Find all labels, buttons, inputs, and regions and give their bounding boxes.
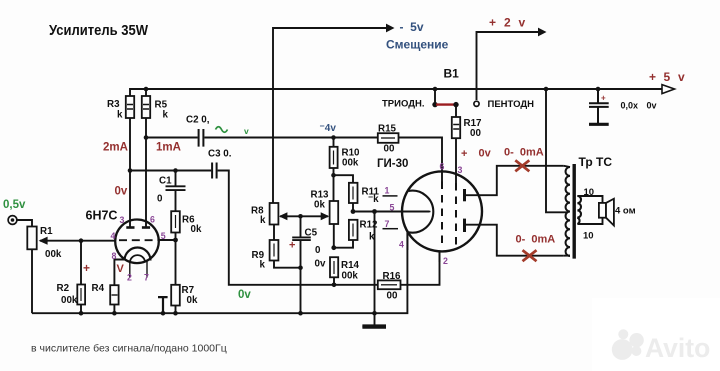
svg-text:k: k <box>260 260 266 271</box>
svg-text:0v: 0v <box>479 148 492 160</box>
svg-text:C5: C5 <box>305 228 318 239</box>
arrow R1 wiper head <box>39 237 48 245</box>
svg-text:C1: C1 <box>159 176 172 187</box>
wire bias vertical <box>273 28 387 203</box>
wire C5 node to ground rail <box>300 268 302 314</box>
capacitor C3 <box>212 163 217 179</box>
wire secondary to speaker <box>577 196 602 203</box>
svg-text:0v: 0v <box>315 259 326 270</box>
svg-text:+: + <box>649 70 656 84</box>
node R9 C5 <box>298 265 303 270</box>
svg-text:0k: 0k <box>187 295 198 306</box>
wire R16 to GI-30 cathode pin2 <box>401 251 440 285</box>
svg-text:00: 00 <box>387 291 398 302</box>
svg-text:10: 10 <box>584 187 595 198</box>
node B1 wiper contact <box>453 102 458 107</box>
svg-text:B1: B1 <box>444 67 460 81</box>
svg-text:2: 2 <box>127 273 132 283</box>
resistor R14 <box>330 257 338 277</box>
arrow +5v rail head <box>662 85 675 94</box>
svg-text:ТРИОДН.: ТРИОДН. <box>382 99 425 110</box>
svg-text:⁻4v: ⁻4v <box>320 123 337 134</box>
svg-text:+: + <box>601 94 606 103</box>
resistor R2 <box>80 241 82 285</box>
svg-text:C2 0,: C2 0, <box>186 115 210 126</box>
node C2 takeoff <box>144 135 149 140</box>
node tcap gnd <box>161 311 166 316</box>
node R13 R12 R14 <box>331 245 336 250</box>
svg-text:v: v <box>519 16 526 30</box>
label sine <box>216 127 228 133</box>
wire primary top lead <box>564 166 570 167</box>
anode bar bottom GI-30 <box>463 219 466 232</box>
svg-text:v: v <box>244 126 249 136</box>
svg-text:5: 5 <box>664 70 671 84</box>
capacitor filter bottom bar <box>589 123 609 126</box>
resistor R5 <box>142 96 150 118</box>
wire R12 to node <box>334 240 353 248</box>
svg-text:0k: 0k <box>314 200 325 211</box>
wire R3 anode lead <box>129 118 131 228</box>
capacitor C5 <box>292 216 311 267</box>
svg-text:Avito: Avito <box>645 333 710 363</box>
node grid2 R6 R7 <box>173 238 178 243</box>
svg-text:k: k <box>163 110 169 121</box>
grid dashed 6N7S <box>119 239 158 241</box>
resistor R7 <box>171 285 180 306</box>
svg-text:R15: R15 <box>378 124 397 135</box>
wire B1 red link <box>436 103 455 105</box>
node C1 takeoff <box>173 168 178 173</box>
resistor R12 <box>349 220 358 240</box>
node C5 top <box>298 214 303 219</box>
potentiometer R8 <box>270 203 279 225</box>
svg-text:v: v <box>678 70 685 84</box>
svg-text:4: 4 <box>399 240 404 250</box>
svg-text:8: 8 <box>112 251 117 261</box>
svg-text:1: 1 <box>385 186 390 196</box>
resistor R11 <box>349 183 358 203</box>
svg-text:00: 00 <box>470 128 481 139</box>
node gnd symbol <box>372 311 377 316</box>
svg-text:2: 2 <box>504 16 511 30</box>
anode bar top GI-30 <box>463 189 466 201</box>
node R10 top <box>331 135 336 140</box>
node R7 gnd <box>173 311 178 316</box>
node R14 bottom on 0v bus <box>332 283 337 288</box>
wire to C2 <box>146 137 198 139</box>
resistor R9 <box>270 240 279 261</box>
svg-text:⁻k: ⁻k <box>368 194 379 205</box>
svg-text:0k: 0k <box>191 224 202 235</box>
node R2 tap <box>79 238 84 243</box>
svg-text:+: + <box>461 148 467 160</box>
node cathode down <box>372 209 377 214</box>
node C5 gnd <box>298 311 303 316</box>
wire cathode to R4 <box>114 260 124 286</box>
svg-text:+: + <box>83 261 90 275</box>
wire cathode to ground <box>374 212 376 314</box>
svg-text:0,5v: 0,5v <box>3 199 26 211</box>
pin7 stub <box>146 261 148 278</box>
wire R8 to R9 <box>273 225 275 241</box>
node anode1 junction <box>128 168 133 173</box>
wire node to R11 <box>334 175 354 183</box>
svg-text:0- 0mA: 0- 0mA <box>504 147 544 159</box>
node B1 triode feed on rail <box>433 87 438 92</box>
anode plate pin3 <box>126 226 134 229</box>
svg-text:00k: 00k <box>45 249 62 260</box>
node R2 gnd <box>79 311 84 316</box>
tube GI-30 envelope <box>402 171 482 251</box>
svg-text:00: 00 <box>384 144 395 155</box>
speaker <box>599 203 606 218</box>
svg-text:00k: 00k <box>61 295 78 306</box>
svg-text:4: 4 <box>111 231 116 241</box>
svg-text:0v: 0v <box>647 101 657 111</box>
svg-text:6: 6 <box>440 162 445 172</box>
svg-text:6Н7С: 6Н7С <box>86 209 118 223</box>
svg-text:- 5v: - 5v <box>400 20 424 34</box>
svg-text:k: k <box>260 215 266 226</box>
wire grid2 to node <box>158 239 176 241</box>
resistor R17 <box>452 117 460 138</box>
resistor R10 <box>333 138 335 147</box>
svg-text:10: 10 <box>583 231 594 242</box>
svg-text:4 ом: 4 ом <box>615 206 636 217</box>
svg-text:0: 0 <box>157 194 163 205</box>
resistor R3 <box>126 96 134 118</box>
wire primary bottom lead <box>564 255 570 257</box>
input jack <box>8 216 17 225</box>
node B1 triode contact <box>432 102 437 107</box>
wire anode top to transformer <box>466 166 564 195</box>
svg-text:7: 7 <box>144 273 149 283</box>
capacitor tap at R7 <box>158 297 168 313</box>
watermark background strip <box>592 298 720 371</box>
svg-text:Усилитель 35W: Усилитель 35W <box>49 22 149 39</box>
svg-text:0v: 0v <box>238 289 251 301</box>
svg-text:C3 0.: C3 0. <box>208 149 232 160</box>
wire anode1 to C3 <box>130 170 211 172</box>
svg-text:+: + <box>489 16 496 30</box>
wire C3 to 0v bus <box>218 171 378 285</box>
grid2 dashed GI-30 <box>455 183 457 247</box>
pin2 stub <box>129 261 131 278</box>
node R11 R12 <box>351 209 356 214</box>
cathode arc GI-30 <box>409 191 434 233</box>
svg-text:2: 2 <box>443 256 448 266</box>
svg-text:5: 5 <box>161 231 166 241</box>
svg-text:+: + <box>289 240 295 252</box>
wire grid node to R7 <box>175 240 177 285</box>
svg-text:00k: 00k <box>342 271 359 282</box>
svg-text:6: 6 <box>150 215 155 225</box>
wire B1 triode contact feed <box>434 89 436 102</box>
node filter cap on rail <box>596 87 601 92</box>
svg-text:R2: R2 <box>57 283 70 294</box>
ground symbol <box>362 313 386 326</box>
wire contact to R17 <box>455 105 457 117</box>
capacitor filter 0,0x <box>589 89 609 123</box>
pin1 stub <box>383 195 398 197</box>
ground rail <box>32 232 407 314</box>
svg-text:7: 7 <box>385 219 390 229</box>
wire anode bottom to transformer <box>466 225 564 256</box>
wire pin4 to ground rail <box>406 232 408 250</box>
transformer secondary winding <box>577 196 581 224</box>
wire pentode contact feed +2v <box>477 32 539 100</box>
svg-text:V: V <box>117 263 125 275</box>
wire R1 to ground rail <box>31 249 33 313</box>
transformer core <box>573 164 576 259</box>
svg-text:в числителе без сигнала/подано: в числителе без сигнала/подано 1000Гц <box>31 343 227 355</box>
svg-text:5: 5 <box>390 203 395 213</box>
contact B1 pentode open circle <box>474 101 479 106</box>
wire R7 to ground rail <box>175 306 177 314</box>
node R4 gnd <box>112 311 117 316</box>
svg-text:R4: R4 <box>92 283 105 294</box>
wire +5v top rail <box>130 89 662 96</box>
svg-text:0: 0 <box>315 245 321 256</box>
svg-text:k: k <box>117 110 123 121</box>
svg-text:3: 3 <box>458 165 463 175</box>
wire pin2 to R16 <box>439 251 441 262</box>
svg-text:R16: R16 <box>383 271 402 282</box>
resistor R16 <box>378 280 401 289</box>
svg-text:k: k <box>369 232 375 243</box>
wire R11 to cathode node <box>352 203 354 212</box>
arrow +2v head <box>538 28 547 37</box>
resistor R15 <box>378 133 399 143</box>
wire R9 to C5 node <box>274 261 301 268</box>
svg-text:R14: R14 <box>341 260 360 271</box>
svg-text:0v: 0v <box>115 186 128 198</box>
X meter bottom <box>523 250 537 261</box>
arrow bias -5v head <box>386 24 395 33</box>
potentiometer R1 <box>27 227 36 250</box>
node R10 bottom <box>331 173 336 178</box>
cathode dome 6N7S <box>125 248 151 261</box>
wire R17 to grid2 GI-30 <box>455 138 457 183</box>
wire R1 wiper to grid1 <box>40 240 116 242</box>
capacitor C1 <box>166 171 186 212</box>
svg-text:0- 0mA: 0- 0mA <box>516 234 556 246</box>
svg-text:Тр ТС: Тр ТС <box>579 155 613 169</box>
svg-text:ПЕНТОДН: ПЕНТОДН <box>488 99 535 110</box>
wire cathode pin5 <box>353 211 430 213</box>
arrow wiper left head <box>279 212 288 220</box>
svg-text:2mA: 2mA <box>103 142 128 154</box>
transformer primary winding <box>566 167 570 256</box>
wire R6 to grid node <box>175 233 177 241</box>
wire R5 anode lead <box>145 118 147 228</box>
resistor R4 <box>110 285 118 304</box>
svg-text:0,0x: 0,0x <box>621 101 639 111</box>
watermark avito logo <box>612 339 633 360</box>
arrow wiper right head <box>321 212 330 220</box>
svg-text:R1: R1 <box>40 226 53 237</box>
tube 6N7S envelope <box>115 220 159 264</box>
potentiometer R13 <box>333 175 335 201</box>
svg-text:00k: 00k <box>342 158 359 169</box>
wire C2 to R15 <box>204 137 377 139</box>
node transformer tap on rail <box>544 87 549 92</box>
capacitor C2 <box>199 129 204 147</box>
svg-text:3: 3 <box>120 215 125 225</box>
wire wiper link R8 R13 <box>280 215 328 217</box>
svg-text:1mA: 1mA <box>156 142 181 154</box>
wire transformer center tap <box>546 89 567 212</box>
svg-text:ГИ-30: ГИ-30 <box>377 158 408 170</box>
svg-text:R3: R3 <box>107 99 120 110</box>
pin7 stub <box>383 228 399 230</box>
grid1 dashed GI-30 <box>441 182 443 248</box>
wire R5 stub to rail <box>145 89 147 96</box>
node R5 top on rail <box>144 87 149 92</box>
wire R15 to GI-30 grid1 <box>399 138 443 182</box>
svg-text:R12: R12 <box>360 220 379 231</box>
X meter top <box>515 160 529 171</box>
anode plate pin6 <box>142 226 150 229</box>
svg-text:Смещение: Смещение <box>386 38 449 52</box>
resistor R6 <box>171 211 180 232</box>
wire jack to R1 <box>17 220 32 227</box>
wire pin5 into cathode <box>428 211 431 213</box>
